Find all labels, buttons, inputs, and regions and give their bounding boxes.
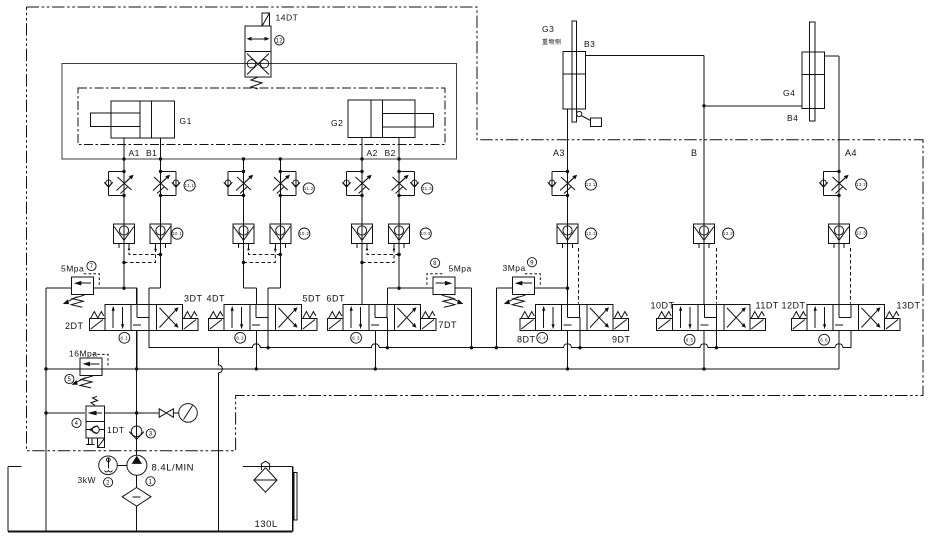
line B2 to check xyxy=(398,196,400,225)
valve 6.6 P drop to P rail end xyxy=(838,330,840,369)
pipe relief 9 drain to T rail xyxy=(496,287,512,289)
solenoid right of 6.5 (10DT/11DT) xyxy=(750,312,766,331)
solenoid left of 6.2 (4DT/5DT) xyxy=(208,312,224,331)
flow control valve 11.2 xyxy=(273,170,300,197)
svg-text:6.3: 6.3 xyxy=(352,335,360,340)
spring under 14DT xyxy=(251,77,262,89)
port line A1 xyxy=(123,138,125,172)
P rail junction dots xyxy=(44,367,47,370)
pipe B2 junction to relief 8 xyxy=(399,287,433,289)
svg-text:13.1: 13.1 xyxy=(586,182,596,187)
label circle 7 xyxy=(87,261,96,270)
junction dots on enclosure edge xyxy=(122,157,125,160)
motor-pump shaft xyxy=(117,464,127,466)
svg-text:6.4: 6.4 xyxy=(538,335,546,340)
left drain riser to tank xyxy=(45,288,47,531)
svg-text:G4: G4 xyxy=(783,88,795,98)
svg-text:13DT: 13DT xyxy=(897,301,921,311)
pilot line pair at 362 xyxy=(360,247,400,264)
T rail junction dots xyxy=(266,346,269,349)
flow control valve 11.2 A xyxy=(224,170,254,197)
svg-text:8.4L/MIN: 8.4L/MIN xyxy=(152,463,195,474)
svg-text:G2: G2 xyxy=(331,118,343,128)
port line B2 xyxy=(398,138,400,172)
pipe B3 to node B xyxy=(586,55,704,57)
line A3 to check xyxy=(567,196,569,225)
svg-text:10.1: 10.1 xyxy=(172,231,182,236)
pilot line check 12.2 to valve 6.5 xyxy=(716,248,718,304)
solenoid right of 6.6 (12DT/13DT) xyxy=(884,312,900,331)
port line A2 xyxy=(361,138,363,172)
svg-text:7: 7 xyxy=(90,264,94,270)
pilot-operated check valve 10.2 A xyxy=(233,224,254,248)
pipe drain riser to 1DT valve xyxy=(46,412,85,414)
mid drop line B from enclosure xyxy=(279,159,281,172)
svg-text:8: 8 xyxy=(433,261,437,267)
oil tank outline xyxy=(8,466,293,531)
pipe P rail left to drain riser xyxy=(46,368,80,370)
svg-text:2: 2 xyxy=(106,480,110,486)
cylinder G3 xyxy=(563,21,586,122)
solenoid right of 6.3 (6DT/7DT) xyxy=(420,312,436,331)
svg-text:6DT: 6DT xyxy=(327,294,346,304)
pipe relief 8 to T rail xyxy=(455,287,472,289)
svg-text:B4: B4 xyxy=(787,113,798,123)
label circle 13.2 xyxy=(856,179,867,190)
pilot line check 12.3 to valve 6.6 xyxy=(850,248,852,304)
svg-text:A3: A3 xyxy=(553,148,565,158)
directional valve 6.3 (6DT/7DT) body xyxy=(343,305,420,331)
line A4 check to valve 6.6 xyxy=(838,244,840,305)
label circle 13.1 xyxy=(585,179,596,190)
unloading valve 1DT (4) xyxy=(86,396,105,447)
label circle 12.2 xyxy=(723,228,734,239)
svg-text:A4: A4 xyxy=(845,148,857,158)
svg-text:B2: B2 xyxy=(385,148,396,158)
svg-text:10.3: 10.3 xyxy=(421,231,431,236)
P riser dots xyxy=(135,411,138,414)
svg-text:6.5: 6.5 xyxy=(686,337,694,342)
label circle 11.3 xyxy=(422,183,433,194)
P riser pump to valves xyxy=(136,288,138,305)
label circle 6.3 xyxy=(351,332,362,343)
cylinder G2 xyxy=(348,100,433,138)
valve T stubs to T rail xyxy=(267,317,269,347)
relief valve 9 (3Mpa) xyxy=(504,274,541,308)
svg-text:重物侧: 重物侧 xyxy=(542,38,562,46)
svg-text:130L: 130L xyxy=(255,519,278,530)
line A3 check to junction xyxy=(567,244,569,289)
svg-text:11.1: 11.1 xyxy=(185,183,195,188)
label circle 6.1 xyxy=(119,332,130,343)
pipe A4 down xyxy=(838,140,840,172)
svg-text:13.2: 13.2 xyxy=(856,182,866,187)
directional valve 6.4 (8DT/9DT) body xyxy=(536,305,613,331)
relief valve 7 (5Mpa) xyxy=(63,274,100,308)
hydraulic pump (1) xyxy=(127,455,147,475)
svg-text:B3: B3 xyxy=(584,39,595,49)
svg-text:9DT: 9DT xyxy=(612,335,631,345)
solenoid right of 6.1 (2DT/3DT) xyxy=(182,312,198,331)
line A3 through valve 6.4 xyxy=(567,288,569,305)
svg-text:5: 5 xyxy=(67,377,71,383)
pilot line pair at 243.5 xyxy=(242,247,282,264)
svg-text:6.2: 6.2 xyxy=(236,335,244,340)
valve 6.3 P drop xyxy=(374,330,376,369)
pilot-operated check valve 10.1 B1 xyxy=(150,224,171,248)
flow control valve 11.1 A1 xyxy=(104,170,134,197)
pipe 1DT valve to P riser xyxy=(105,412,137,414)
pipe G4 top port to A4 line xyxy=(825,55,839,57)
svg-text:11DT: 11DT xyxy=(756,301,779,311)
label circle 6.5 xyxy=(684,334,695,345)
svg-text:3: 3 xyxy=(149,432,153,438)
inner dash-dot frame xyxy=(78,88,445,145)
pilot-operated check valve 12.3 xyxy=(829,224,850,248)
label circle 6.2 xyxy=(235,332,246,343)
flow control valve 11.3 A xyxy=(342,170,372,197)
pipe filter to tank xyxy=(136,506,138,531)
solenoid of 14DT xyxy=(262,13,270,26)
label circle 4 xyxy=(72,418,81,427)
svg-text:5DT: 5DT xyxy=(303,294,322,304)
pilot-operated check valve 10.3 B xyxy=(389,224,410,248)
line B1 check to jog xyxy=(160,244,162,289)
svg-text:10.2: 10.2 xyxy=(299,231,309,236)
pilot line pair at 124 xyxy=(122,247,162,264)
tank level gauge xyxy=(293,473,298,521)
solenoid right of 6.4 (8DT/9DT) xyxy=(613,312,629,331)
pipe node B to G4 bottom port xyxy=(704,105,802,107)
label circle 10.2 xyxy=(299,228,310,239)
line B check to valve 6.5 xyxy=(703,244,705,305)
label circle 6.4 xyxy=(537,332,548,343)
svg-text:12: 12 xyxy=(275,38,283,44)
line A1 to check xyxy=(123,196,125,225)
valve manifold enclosure box xyxy=(62,64,457,160)
svg-text:2DT: 2DT xyxy=(65,321,84,331)
svg-text:6.1: 6.1 xyxy=(121,335,129,340)
position sensor at G3 xyxy=(577,111,602,126)
shut-off valve at gauge xyxy=(159,409,173,417)
label circle 1 xyxy=(146,477,155,486)
label circle 12.3 xyxy=(856,227,867,238)
tank return line xyxy=(218,348,222,532)
svg-text:14DT: 14DT xyxy=(276,13,299,23)
pipe relief 9 to A3 junction xyxy=(534,287,567,289)
air breather on tank xyxy=(254,461,277,492)
valve 6.1 P drop to rail xyxy=(136,330,138,369)
port line B1 xyxy=(160,138,162,172)
svg-text:1: 1 xyxy=(149,479,153,485)
suction filter xyxy=(122,475,151,506)
label circle 11.2 xyxy=(303,183,314,194)
label circle 11.1 xyxy=(184,180,195,191)
jog midA into valve 6.2 xyxy=(244,287,257,289)
solenoid left of 6.1 (2DT/3DT) xyxy=(89,312,105,331)
svg-text:G3: G3 xyxy=(542,24,554,34)
pipe relief 7 to A1 junction xyxy=(93,287,124,289)
label circle 5 xyxy=(65,374,74,383)
directional valve 6.5 (10DT/11DT) body xyxy=(672,305,749,331)
jog A1 into valve 6.1 xyxy=(124,287,137,289)
line A1 check to junction xyxy=(123,244,125,289)
solenoid left of 6.4 (8DT/9DT) xyxy=(520,312,536,331)
valve 14DT body xyxy=(245,26,271,77)
svg-text:G1: G1 xyxy=(180,116,192,126)
svg-text:6.6: 6.6 xyxy=(820,337,828,342)
svg-text:8DT: 8DT xyxy=(517,335,536,345)
label circle 12 xyxy=(275,36,284,45)
flow control valve 11.1 xyxy=(153,170,180,197)
pilot-operated check valve 10.1 A1 xyxy=(114,224,135,248)
pipe P riser to gauge xyxy=(137,412,160,414)
svg-text:A2: A2 xyxy=(367,148,378,158)
mid drop line from enclosure xyxy=(243,159,245,172)
pipe B down xyxy=(703,106,705,224)
svg-text:B: B xyxy=(691,148,698,158)
label circle 10.3 xyxy=(420,228,431,239)
relief valve 5 (16Mpa) xyxy=(72,354,109,388)
svg-text:12.3: 12.3 xyxy=(856,231,866,236)
solenoid left of 6.6 (12DT/13DT) xyxy=(791,312,807,331)
line mid B to check xyxy=(279,196,281,225)
pilot-operated check valve 10.3 A xyxy=(352,224,373,248)
line midA check to jog xyxy=(243,244,245,289)
line A2 to check xyxy=(361,196,363,225)
svg-text:3kW: 3kW xyxy=(78,475,97,485)
svg-text:3Mpa: 3Mpa xyxy=(503,263,526,273)
pilot line check 12.1 to valve 6.4 xyxy=(578,248,580,304)
svg-text:5Mpa: 5Mpa xyxy=(449,264,472,274)
svg-text:12.1: 12.1 xyxy=(586,231,596,236)
electric motor (2) xyxy=(99,456,118,475)
pilot-operated check valve 10.2 B xyxy=(270,224,291,248)
line B2 check to junction xyxy=(398,244,400,289)
node B junction dot xyxy=(702,104,705,107)
T return rail xyxy=(149,305,851,348)
relief valve 8 (5Mpa) xyxy=(427,274,464,308)
pipe G3 bottom to A3 line xyxy=(567,109,569,171)
line A2 check to valve 6.3 xyxy=(361,244,363,305)
svg-text:5Mpa: 5Mpa xyxy=(61,264,84,274)
cylinder G4 xyxy=(802,22,825,121)
pilot-operated check valve 12.2 xyxy=(694,224,715,248)
flow control valve 13.2 xyxy=(819,170,849,197)
svg-text:B1: B1 xyxy=(146,148,157,158)
svg-text:10DT: 10DT xyxy=(651,301,675,311)
label circle 12.1 xyxy=(585,228,596,239)
svg-text:9: 9 xyxy=(530,260,534,266)
valve 6.4 P drop xyxy=(567,330,569,369)
P pressure rail xyxy=(46,368,839,370)
svg-text:7DT: 7DT xyxy=(439,320,458,330)
label circle 9 xyxy=(527,258,536,267)
solenoid right of 6.2 (4DT/5DT) xyxy=(301,312,317,331)
label circle 3 xyxy=(146,429,155,438)
valve 6.2 P drop xyxy=(255,330,257,369)
jog B2 into valve 6.3 xyxy=(387,287,399,289)
svg-text:3DT: 3DT xyxy=(184,294,203,304)
directional valve 6.6 (12DT/13DT) body xyxy=(807,305,884,331)
pressure gauge xyxy=(173,404,197,423)
drain riser dots xyxy=(44,411,47,414)
svg-text:4DT: 4DT xyxy=(207,294,226,304)
directional valve 6.2 (4DT/5DT) body xyxy=(224,305,301,331)
pilot-operated check valve 12.1 xyxy=(557,224,578,248)
label circle 10.1 xyxy=(172,228,183,239)
svg-text:11.2: 11.2 xyxy=(304,186,314,191)
line midB check to jog xyxy=(279,244,281,289)
flow control valve 11.3 xyxy=(392,170,419,197)
line B1 to check xyxy=(160,196,162,225)
pipe drain riser to relief 7 xyxy=(46,287,71,289)
solenoid left of 6.3 (6DT/7DT) xyxy=(327,312,343,331)
line A4 to check xyxy=(838,196,840,225)
svg-text:12.2: 12.2 xyxy=(723,231,733,236)
jog midB into valve 6.2 xyxy=(268,287,280,289)
cylinder G1 xyxy=(91,101,175,138)
svg-text:12DT: 12DT xyxy=(782,301,806,311)
flow control valve 13.1 xyxy=(548,170,578,197)
svg-text:16Mpa: 16Mpa xyxy=(69,349,98,359)
label circle 6.6 xyxy=(819,334,830,345)
label circle 8 xyxy=(431,258,440,267)
jog B1 into valve 6.1 xyxy=(149,287,161,289)
outer machine boundary (dash-dot) xyxy=(27,7,924,451)
directional valve 6.1 (2DT/3DT) body xyxy=(105,305,182,331)
solenoid left of 6.5 (10DT/11DT) xyxy=(657,312,673,331)
check valve (3) above pump xyxy=(129,426,144,439)
line mid A to check xyxy=(243,196,245,225)
svg-text:1DT: 1DT xyxy=(107,425,125,435)
svg-text:11.3: 11.3 xyxy=(422,186,432,191)
svg-text:4: 4 xyxy=(75,421,79,427)
svg-text:A1: A1 xyxy=(129,148,140,158)
label circle 2 xyxy=(104,478,113,487)
valve 6.5 P drop xyxy=(703,330,705,369)
